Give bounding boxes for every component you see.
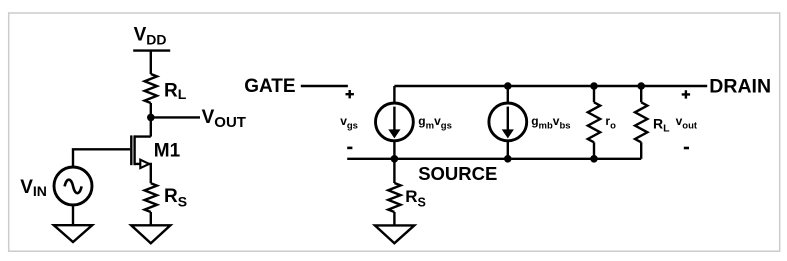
current source gmb*vbs arrow bbox=[507, 107, 509, 133]
wire bottom rail (source rail) bbox=[347, 158, 641, 160]
plus sign vout bbox=[682, 90, 690, 98]
junction dot gmb source bottom bbox=[504, 155, 512, 163]
wire RL to drain of M1 bbox=[150, 103, 152, 137]
resistor ro wires bbox=[593, 86, 595, 102]
power VDD bar bbox=[133, 49, 170, 51]
resistor ro bbox=[588, 102, 600, 142]
resistor RS (left) bbox=[145, 183, 157, 212]
wire top rail (drain rail) bbox=[394, 85, 707, 87]
wire RS to ground bbox=[150, 212, 152, 225]
current source gm*vgs wires bbox=[393, 86, 395, 104]
wire RS to ground (small-signal) bbox=[393, 212, 395, 225]
resistor RL (small-signal) bbox=[635, 102, 647, 142]
current source gmb*vbs wires bbox=[507, 86, 509, 104]
transistor M1 source lead bbox=[135, 164, 151, 183]
resistor RS (small-signal) bbox=[388, 183, 400, 212]
transistor M1 gate bar bbox=[130, 135, 132, 165]
wire gate of M1 to VIN bbox=[73, 149, 130, 167]
junction dot gm source bottom bbox=[391, 155, 399, 163]
svg-text:GATE: GATE bbox=[244, 76, 295, 97]
ground under RS bbox=[131, 225, 170, 243]
resistor RL (small-signal) wires bbox=[640, 86, 642, 102]
wire VDD bar to RL bbox=[150, 51, 152, 74]
wire source rail to RS bbox=[393, 159, 395, 183]
transistor M1 source arrow bbox=[140, 160, 149, 168]
node VOUT junction dot bbox=[147, 114, 155, 122]
svg-text:SOURCE: SOURCE bbox=[418, 163, 497, 184]
wire VIN to ground bbox=[72, 205, 74, 225]
junction dot ro bottom bbox=[590, 155, 598, 163]
junction dot ro top bbox=[590, 82, 598, 90]
transistor M1 channel bar bbox=[133, 135, 135, 165]
ground (small-signal) bbox=[375, 225, 414, 243]
resistor RL bbox=[145, 74, 157, 103]
current source gmb*vbs circle bbox=[489, 103, 527, 141]
transistor M1 drain lead bbox=[135, 135, 151, 137]
plus sign vgs bbox=[346, 90, 354, 98]
svg-text:DRAIN: DRAIN bbox=[709, 76, 771, 98]
current source gm*vgs circle bbox=[376, 103, 414, 141]
junction dot gmb source top bbox=[504, 82, 512, 90]
minus sign vout bbox=[684, 147, 689, 150]
svg-text:M1: M1 bbox=[154, 140, 181, 161]
current source gm*vgs arrow bbox=[393, 107, 395, 133]
source VIN sine wave bbox=[65, 180, 82, 194]
minus sign vgs bbox=[347, 147, 352, 150]
junction dot RL top bbox=[637, 82, 645, 90]
source VIN circle bbox=[54, 167, 92, 205]
ground under VIN bbox=[54, 225, 92, 242]
wire node to VOUT label bbox=[151, 116, 200, 118]
wire from GATE bbox=[301, 85, 348, 87]
